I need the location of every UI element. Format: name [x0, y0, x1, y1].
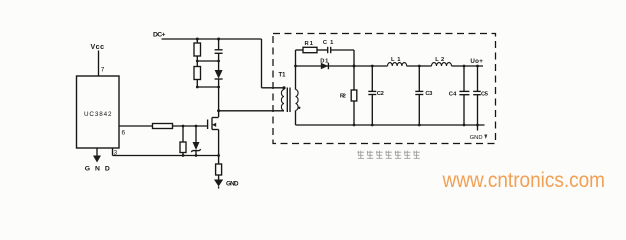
svg-text:GND: GND [470, 135, 483, 141]
svg-text:7: 7 [101, 67, 105, 74]
svg-text:Uo+: Uo+ [470, 58, 483, 65]
svg-text:C3: C3 [425, 91, 433, 97]
svg-text:C2: C2 [377, 91, 384, 97]
svg-text:C 4: C 4 [449, 91, 457, 97]
svg-text:R2: R2 [340, 94, 346, 100]
svg-text:GND: GND [226, 181, 239, 188]
svg-text:GND: GND [85, 166, 110, 173]
svg-text:3: 3 [114, 150, 118, 157]
svg-text:C5: C5 [481, 91, 489, 97]
svg-text:C 1: C 1 [323, 40, 334, 46]
svg-text:R1: R1 [305, 41, 314, 47]
svg-text:DC+: DC+ [153, 32, 166, 39]
svg-text:6: 6 [122, 130, 126, 137]
svg-text:UC3842: UC3842 [84, 111, 112, 118]
svg-text:T1: T1 [279, 73, 287, 79]
svg-text:Vcc: Vcc [91, 44, 105, 51]
svg-text:D1: D1 [320, 58, 329, 64]
svg-text:www.cntronics.com: www.cntronics.com [442, 168, 605, 192]
